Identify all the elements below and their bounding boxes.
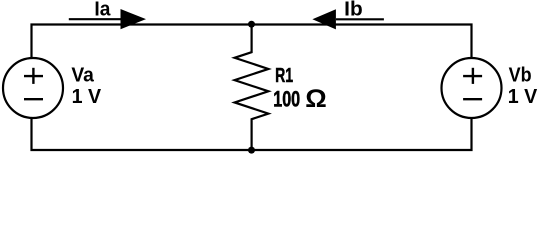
svg-text:1 V: 1 V xyxy=(508,85,538,108)
wire: top rail from left source to right source xyxy=(32,25,472,58)
current arrow Ia (head) xyxy=(121,9,147,29)
svg-text:Vb: Vb xyxy=(509,64,532,87)
voltage source Vb (circle) xyxy=(442,58,502,118)
wire: bottom rail from left source to right source xyxy=(32,119,472,150)
Va plus sign xyxy=(24,68,43,84)
svg-text:Ω: Ω xyxy=(305,86,327,113)
svg-text:Ia: Ia xyxy=(94,0,111,20)
node: bottom junction dot xyxy=(248,147,255,154)
svg-text:R1: R1 xyxy=(275,64,293,87)
node: top junction dot xyxy=(248,21,255,28)
svg-text:Ib: Ib xyxy=(344,0,363,20)
current arrow Ia (shaft) xyxy=(69,18,128,20)
svg-text:100: 100 xyxy=(273,86,300,111)
current arrow Ib (head) xyxy=(312,9,336,29)
Vb plus sign xyxy=(463,68,482,84)
voltage source Va (circle) xyxy=(3,58,63,118)
resistor R1 (zigzag) with leads xyxy=(235,25,269,151)
Va minus sign xyxy=(24,98,43,100)
Vb minus sign xyxy=(463,98,482,100)
svg-text:Va: Va xyxy=(71,64,94,87)
svg-text:1 V: 1 V xyxy=(72,85,102,108)
current arrow Ib (shaft) xyxy=(336,18,384,20)
